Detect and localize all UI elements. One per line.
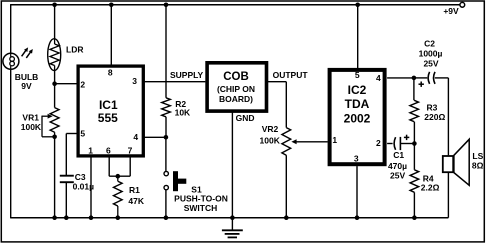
junction IC2 pin3 ground (355, 215, 360, 220)
svg-text:9V: 9V (21, 81, 32, 91)
wire OUTPUT (267, 82, 287, 128)
node LDR/pin2 (52, 81, 57, 86)
resistor R2 10K (162, 98, 171, 117)
svg-text:47K: 47K (128, 196, 144, 206)
svg-text:COB: COB (223, 71, 249, 83)
label 1000u (419, 49, 443, 59)
pin 1 label (88, 145, 93, 155)
svg-text:25V: 25V (423, 58, 438, 68)
junction S1 ground (164, 215, 169, 220)
label 9V (21, 81, 32, 91)
svg-text:2: 2 (376, 138, 381, 148)
svg-text:IC1: IC1 (99, 98, 118, 112)
pin 3 label (132, 76, 137, 86)
svg-text:470µ: 470µ (388, 161, 407, 171)
svg-text:4: 4 (376, 73, 381, 83)
terminal +9V (460, 2, 465, 7)
svg-text:TDA: TDA (345, 97, 370, 111)
svg-text:100K: 100K (260, 136, 281, 146)
wire IC2 pin3 (356, 166, 358, 218)
wire R2 top (165, 5, 167, 98)
label R2 (175, 99, 186, 109)
node C1/R3/R4 (412, 141, 417, 146)
junction pin8 top bus (109, 3, 114, 8)
label 8ohm (472, 160, 484, 170)
junction R1 ground (116, 215, 121, 220)
wire node to S1 (165, 137, 167, 171)
wire pin8 (110, 5, 112, 66)
label BOARD (219, 94, 253, 104)
junction IC2 pin5 top bus (355, 3, 360, 8)
pin 4 label IC2 (376, 73, 381, 83)
svg-text:8: 8 (108, 68, 113, 78)
label 2.2ohm (421, 183, 440, 193)
resistor R4 2.2ohm (410, 144, 419, 218)
label 10K (175, 108, 191, 118)
pin 2 label (80, 80, 85, 90)
junction pin1 ground (89, 215, 94, 220)
svg-text:2002: 2002 (344, 112, 371, 126)
wire SUPPLY pin3 to COB (143, 81, 205, 83)
label 2002 (344, 112, 371, 126)
wire COB GND (231, 111, 233, 218)
label 25V C1 (390, 171, 405, 181)
light arrows (22, 47, 33, 58)
label R3 (427, 102, 438, 112)
svg-text:2.2Ω: 2.2Ω (421, 183, 440, 193)
label OUTPUT (273, 70, 309, 80)
label PUSH-TO-ON (174, 193, 228, 203)
label R4 (423, 173, 434, 183)
junction COB ground (230, 215, 235, 220)
svg-text:3: 3 (132, 76, 137, 86)
loudspeaker LS 8ohm (443, 139, 469, 217)
resistor R1 47K (114, 176, 123, 218)
junction LDR branch ground (52, 215, 57, 220)
op-amp IC1 555 (78, 66, 143, 156)
label C2 (424, 38, 435, 48)
svg-text:C1: C1 (393, 150, 404, 160)
wire C3 to bus (65, 183, 67, 218)
label VR2 (262, 124, 279, 134)
svg-text:100K: 100K (21, 122, 42, 132)
junction VR2 ground (284, 215, 289, 220)
label C1 (393, 150, 404, 160)
capacitor C3 0.01u (60, 176, 74, 183)
wire LDR top (54, 5, 56, 39)
node R1 top (116, 174, 121, 179)
wire IC2 pin4 out (387, 77, 414, 79)
node pin4/R3/C2 (412, 76, 417, 81)
svg-text:25V: 25V (390, 171, 405, 181)
svg-text:1: 1 (332, 135, 337, 145)
svg-text:C2: C2 (424, 38, 435, 48)
svg-text:GND: GND (236, 113, 255, 123)
wire pin7 (129, 156, 131, 176)
svg-text:LDR: LDR (66, 45, 83, 55)
junction R2 top bus (164, 3, 169, 8)
amplifier IC2 TDA2002 (330, 70, 385, 164)
svg-text:5: 5 (355, 70, 360, 80)
wire VR2 to bus (285, 155, 287, 218)
label SUPPLY (170, 70, 204, 80)
svg-text:2: 2 (80, 80, 85, 90)
wire S1 to bus (165, 190, 167, 218)
wire pin6 (108, 156, 110, 176)
label 220ohm (424, 112, 445, 122)
label CHIP ON (217, 84, 255, 94)
pin 6 label (106, 145, 111, 155)
resistor R3 220ohm (410, 78, 419, 144)
wire pin1 (90, 156, 92, 218)
switch S1 push-to-on (164, 171, 186, 191)
wire pin2 (55, 83, 77, 85)
wire pin4 (143, 136, 166, 138)
junction C3 ground (64, 215, 69, 220)
svg-text:PUSH-TO-ON: PUSH-TO-ON (174, 193, 228, 203)
label C3 (75, 172, 86, 182)
svg-text:OUTPUT: OUTPUT (273, 70, 309, 80)
bulb BULB 9V (3, 53, 19, 69)
label S1 (191, 184, 202, 194)
label R1 (129, 185, 140, 195)
label 25V C2 (423, 58, 438, 68)
svg-text:1000µ: 1000µ (419, 49, 443, 59)
svg-text:7: 7 (128, 145, 133, 155)
label VR1 (22, 113, 39, 123)
ground (222, 218, 243, 238)
label 470u (388, 161, 407, 171)
svg-text:555: 555 (98, 111, 118, 125)
svg-text:IC2: IC2 (348, 83, 367, 97)
svg-text:VR2: VR2 (262, 124, 279, 134)
svg-text:5: 5 (80, 129, 85, 139)
capacitor C1 470u 25V (394, 135, 409, 150)
wire pin5 (66, 134, 78, 176)
label 555 (98, 111, 118, 125)
node VR1 bottom (52, 135, 57, 140)
svg-text:(CHIP ON: (CHIP ON (217, 84, 255, 94)
label TDA (345, 97, 370, 111)
pin 4 label (133, 132, 138, 142)
COB chip on board (207, 63, 266, 111)
svg-text:8Ω: 8Ω (472, 160, 484, 170)
svg-text:SWITCH: SWITCH (184, 203, 218, 213)
label LDR (66, 45, 83, 55)
label 100K VR1 (21, 122, 42, 132)
wire left vertical top (10, 4, 12, 54)
label +9V (443, 6, 459, 16)
svg-text:C3: C3 (75, 172, 86, 182)
wire VR1 to ground bus (54, 137, 56, 218)
label 0.01u (73, 182, 95, 192)
label 100K VR2 (260, 136, 281, 146)
wire C2 to speaker (435, 78, 449, 155)
potentiometer VR2 100K (282, 128, 328, 156)
svg-text:BOARD): BOARD) (219, 94, 253, 104)
capacitor C2 1000u 25V (419, 72, 436, 87)
LDR (48, 39, 61, 71)
svg-text:6: 6 (106, 145, 111, 155)
wire LDR to node (54, 70, 56, 83)
wire bottom ground bus (11, 217, 449, 219)
wire pin6-pin7 (109, 175, 130, 177)
svg-text:SUPPLY: SUPPLY (170, 70, 204, 80)
svg-text:4: 4 (133, 132, 138, 142)
pin 2 label IC2 (376, 138, 381, 148)
node pin4/R2/S1 (164, 135, 169, 140)
wire node to VR1 (54, 84, 56, 108)
svg-text:3: 3 (354, 154, 359, 164)
pin 3 label IC2 (354, 154, 359, 164)
pin 5 label IC2 (355, 70, 360, 80)
wire IC2 pin2 (387, 143, 393, 145)
junction LDR branch top (52, 3, 57, 8)
svg-text:+9V: +9V (443, 6, 459, 16)
potentiometer VR1 100K (42, 108, 59, 137)
wire R2 bottom (165, 117, 167, 138)
svg-text:R1: R1 (129, 185, 140, 195)
label IC2 (348, 83, 367, 97)
wire node to C2 (414, 77, 427, 79)
wire top +9V bus (11, 4, 460, 6)
label SWITCH (184, 203, 218, 213)
svg-text:10K: 10K (175, 108, 191, 118)
wire C1 to node (400, 143, 414, 145)
pin 7 label (128, 145, 133, 155)
label COB (223, 71, 249, 83)
pin 8 label (108, 68, 113, 78)
wire left vertical bottom (10, 69, 12, 218)
label BULB (15, 72, 39, 82)
svg-text:1: 1 (88, 145, 93, 155)
label GND (236, 113, 255, 123)
wire IC2 pin5 (357, 5, 359, 69)
label LS (472, 151, 483, 161)
pin 5 label (80, 129, 85, 139)
svg-text:VR1: VR1 (22, 113, 39, 123)
junction R4 ground (412, 215, 417, 220)
label IC1 (99, 98, 118, 112)
label 47K (128, 196, 144, 206)
svg-text:220Ω: 220Ω (424, 112, 445, 122)
pin 1 label IC2 (332, 135, 337, 145)
